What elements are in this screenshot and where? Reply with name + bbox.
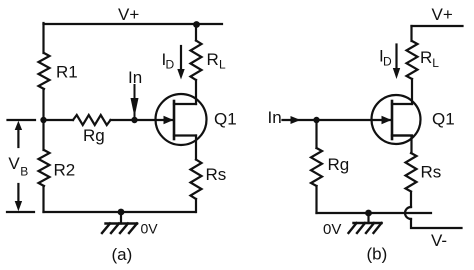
wire crossover hop (b): [405, 207, 411, 219]
junction dot In node (a): [131, 117, 137, 123]
wire gate node to Rg (b): [315, 120, 317, 148]
svg-text:R: R: [207, 50, 219, 69]
net 0V rail (b): [317, 212, 432, 214]
resistor Rs (a): [191, 160, 202, 200]
resistor RL (a): [191, 41, 202, 81]
svg-text:V+: V+: [432, 5, 453, 24]
measure arrow VB top tick: [8, 119, 36, 121]
wire hop to V- (b): [411, 219, 462, 228]
ground symbol (b): [367, 213, 369, 223]
wire left rail bottom (a): [42, 186, 44, 212]
svg-text:0V: 0V: [323, 221, 341, 238]
wire V+ to RL (a): [195, 24, 197, 41]
svg-text:R2: R2: [54, 161, 76, 180]
junction dot ground (b): [365, 210, 372, 217]
wire left rail mid (a): [42, 89, 44, 150]
junction dot drain/V+ (a): [193, 21, 200, 28]
input arrowhead In (b): [291, 116, 301, 124]
wire RL to drain (a): [195, 80, 197, 104]
svg-text:Q1: Q1: [432, 110, 455, 129]
junction dot gate node (b): [313, 117, 319, 123]
measure arrow VB up: [17, 127, 19, 147]
svg-text:L: L: [219, 58, 226, 72]
measure arrow VB down: [17, 184, 19, 201]
net 0V rail (a): [44, 211, 196, 213]
svg-text:D: D: [383, 55, 392, 69]
wire input In (b): [283, 119, 391, 121]
svg-text:V-: V-: [431, 231, 447, 250]
wire Rg to 0V rail (b): [315, 186, 317, 213]
svg-text:Q1: Q1: [214, 110, 237, 129]
svg-text:L: L: [432, 56, 439, 70]
resistor R1: [39, 53, 50, 89]
measure arrow VB bottom tick: [7, 211, 34, 213]
wire source to Rs (b): [392, 136, 412, 154]
input arrow In (a): [134, 85, 136, 116]
svg-text:(b): (b): [367, 245, 388, 264]
transistor Q1 (b): [372, 95, 421, 144]
svg-text:Rg: Rg: [83, 126, 105, 145]
node gate junction (a): [40, 117, 46, 123]
svg-text:R1: R1: [56, 63, 78, 82]
svg-text:V: V: [8, 154, 20, 173]
junction dot ground (a): [118, 209, 125, 216]
wire Rs to 0V rail (a): [195, 199, 197, 212]
current arrow ID (b): [395, 45, 397, 70]
net V+ rail (a): [44, 23, 223, 25]
svg-text:V+: V+: [118, 5, 139, 24]
ground symbol (a): [120, 212, 122, 224]
wire V+ to RL (b): [410, 26, 412, 41]
resistor Rg (a): [73, 115, 111, 125]
svg-text:In: In: [268, 108, 282, 127]
wire gate lead left (a): [44, 119, 74, 121]
svg-text:Rs: Rs: [206, 165, 227, 184]
svg-text:R: R: [420, 48, 432, 67]
wire RL to drain (b): [411, 79, 413, 104]
current arrow ID (a): [180, 46, 182, 70]
wire Rs to hop (b): [410, 192, 412, 207]
svg-text:D: D: [166, 58, 175, 72]
resistor R2: [39, 150, 50, 186]
resistor RL (b): [407, 41, 418, 79]
wire left rail top (a): [42, 23, 44, 53]
wire gate lead right (a): [111, 119, 174, 121]
transistor Q1 (a): [156, 94, 207, 145]
resistor Rs (b): [406, 153, 417, 192]
resistor Rg (b): [311, 148, 322, 186]
wire source to Rs (a): [195, 136, 197, 160]
svg-text:(a): (a): [112, 245, 133, 264]
svg-text:Rs: Rs: [421, 163, 442, 182]
svg-text:Rg: Rg: [328, 155, 350, 174]
net V+ rail (b): [412, 25, 463, 27]
svg-text:0V: 0V: [141, 221, 159, 237]
svg-text:B: B: [20, 165, 28, 179]
